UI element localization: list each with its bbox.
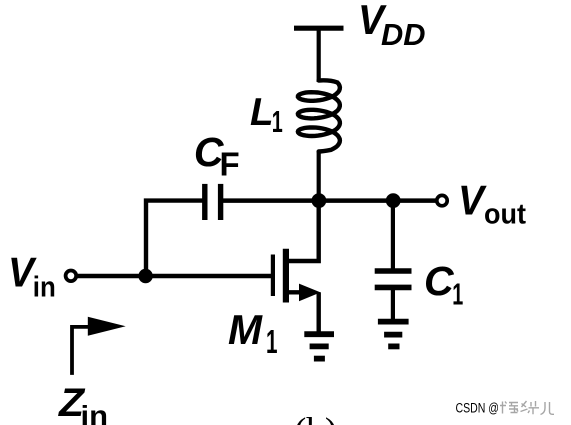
- VDD supply bar: [294, 26, 344, 31]
- label L1: [250, 91, 283, 139]
- ground (C1): [378, 322, 409, 347]
- wire Vin to gate: [77, 274, 271, 279]
- svg-text:V: V: [458, 177, 487, 224]
- svg-text:out: out: [484, 199, 526, 231]
- svg-text:1: 1: [266, 323, 278, 360]
- label C1: [424, 258, 463, 311]
- terminal Vin: [66, 271, 77, 282]
- label VDD: [358, 0, 426, 52]
- svg-text:L: L: [250, 91, 274, 134]
- wire CF to input node (feedback branch): [146, 201, 203, 276]
- label Zin: [58, 381, 108, 425]
- svg-text:in: in: [33, 272, 56, 304]
- label Vout: [458, 177, 526, 231]
- capacitor CF: [205, 184, 221, 220]
- svg-text:F: F: [220, 145, 240, 182]
- capacitor C1: [375, 271, 412, 287]
- svg-text:1: 1: [452, 277, 463, 312]
- node drain junction: [312, 193, 327, 208]
- watermark: [456, 401, 555, 416]
- svg-text:in: in: [81, 400, 109, 425]
- svg-text:(b): (b): [294, 411, 337, 425]
- wire VDD to L1: [317, 28, 321, 82]
- transistor M1: [273, 203, 321, 334]
- node output junction: [386, 193, 401, 208]
- wire L1 to drain node: [317, 151, 321, 204]
- wire node to C1: [391, 203, 395, 269]
- inductor L1: [298, 80, 340, 151]
- wire output node (CF right plate to Vout terminal): [223, 198, 436, 203]
- svg-text:1: 1: [272, 104, 283, 139]
- svg-text:DD: DD: [381, 17, 426, 52]
- impedance arrow Zin: [72, 317, 126, 375]
- svg-text:M: M: [228, 306, 263, 353]
- node input junction: [138, 269, 152, 283]
- terminal Vout: [437, 195, 447, 205]
- label M1: [228, 306, 278, 360]
- wire C1 to ground: [391, 289, 395, 321]
- svg-text:CSDN @: CSDN @: [456, 401, 500, 416]
- ground (M1 source): [304, 334, 334, 358]
- label Vin: [8, 248, 56, 303]
- label CF: [194, 129, 240, 183]
- svg-text:C: C: [424, 258, 455, 304]
